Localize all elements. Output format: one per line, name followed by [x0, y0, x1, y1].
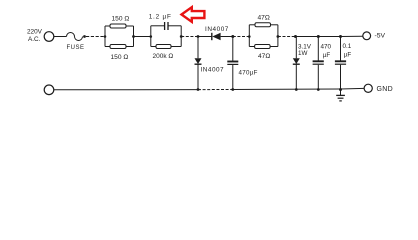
- capacitor 470uF wire bottom: [232, 65, 234, 90]
- wire 150ohm block to RC block: [134, 36, 151, 38]
- wire top branch right: [126, 25, 134, 27]
- resistor 150 ohm (top): [110, 24, 126, 28]
- svg-text:FUSE: FUSE: [67, 45, 85, 51]
- capacitor 0.1uF wire top: [340, 37, 342, 61]
- junction dot bottom: [339, 88, 342, 91]
- svg-text:GND: GND: [377, 86, 393, 93]
- svg-text:47Ω: 47Ω: [258, 14, 270, 21]
- wire cap branch right: [168, 25, 181, 27]
- wire top branch left: [105, 25, 110, 27]
- capacitor 0.1uF plates: [335, 60, 346, 62]
- wire shunt diode to bottom rail: [197, 64, 199, 89]
- svg-text:1W: 1W: [298, 50, 308, 57]
- zener diode symbol (pointing down): [293, 58, 300, 64]
- svg-text:47Ω: 47Ω: [258, 53, 270, 60]
- svg-text:1.2 µF: 1.2 µF: [149, 14, 172, 21]
- junction dot bottom of 470uF: [231, 88, 234, 91]
- wire to 0.1uF node: [318, 36, 340, 38]
- node: left vertical of 47ohm parallel block: [248, 25, 250, 47]
- svg-text:µF: µF: [344, 51, 352, 58]
- capacitor 470uF (first) wire top: [232, 37, 234, 61]
- resistor 150 ohm (bottom): [110, 45, 126, 49]
- junction dot after fuse: [83, 35, 86, 38]
- wire terminal to fuse: [54, 36, 67, 38]
- wire fuse to 150ohm block: [86, 36, 105, 38]
- junction dot bottom of shunt diode: [197, 88, 200, 91]
- bottom rail wire left: [54, 89, 198, 91]
- bottom rail wire right: [233, 88, 341, 91]
- terminal 220V AC (top left): [44, 32, 54, 42]
- junction dot bottom: [317, 88, 320, 91]
- capacitor 1.2uF: [164, 22, 166, 30]
- junction dot bottom of zener: [295, 88, 298, 91]
- terminal GND: [364, 84, 372, 92]
- capacitor 470uF plates: [227, 61, 238, 63]
- node D junction dot: [317, 35, 320, 38]
- svg-text:-5V: -5V: [375, 32, 386, 39]
- terminal bottom left: [44, 85, 54, 95]
- wire bottom branch right: [270, 46, 278, 48]
- wire res branch left: [151, 46, 156, 48]
- node B junction dot: [231, 35, 234, 38]
- svg-text:220V: 220V: [27, 29, 43, 36]
- wire bottom branch right: [126, 46, 134, 48]
- svg-text:0.1: 0.1: [343, 43, 352, 50]
- fuse FUSE: [67, 33, 83, 41]
- wire bottom branch left: [105, 46, 110, 48]
- bottom rail to GND terminal: [341, 87, 365, 90]
- wire node A to diode: [198, 36, 212, 38]
- terminal -5V: [363, 32, 371, 40]
- wire 47ohm block to zener node: [278, 36, 296, 38]
- diode IN4007 shunt symbol (pointing down): [195, 58, 202, 64]
- svg-text:µF: µF: [323, 52, 331, 59]
- wire RC block to diode node: [181, 36, 198, 38]
- wire bottom branch left: [249, 46, 254, 48]
- wire top branch left: [249, 24, 255, 26]
- wire diode to cap node: [221, 36, 233, 38]
- capacitor 0.1uF wire bottom: [340, 65, 342, 90]
- node: right vertical of 47ohm block: [277, 25, 279, 47]
- svg-text:470: 470: [321, 44, 332, 51]
- capacitor 470uF (second) wire bottom: [317, 65, 319, 90]
- wire top branch right: [271, 24, 278, 26]
- wire to -5V terminal: [341, 35, 363, 37]
- node: right vertical of RC block: [180, 26, 182, 47]
- resistor 47 ohm (bottom): [255, 45, 271, 49]
- resistor 200k ohm: [156, 45, 171, 49]
- node: left vertical of RC parallel block: [150, 26, 152, 47]
- svg-text:A.C.: A.C.: [28, 36, 41, 43]
- resistor 47 ohm (top): [255, 23, 271, 27]
- svg-text:470µF: 470µF: [239, 69, 258, 76]
- svg-text:150 Ω: 150 Ω: [111, 54, 129, 61]
- node: left vertical of 150ohm parallel block: [104, 26, 106, 47]
- svg-text:IN4007: IN4007: [201, 66, 225, 73]
- wire cap node to 47ohm block: [233, 36, 250, 38]
- bottom rail wire middle: [198, 89, 233, 91]
- svg-text:200k Ω: 200k Ω: [153, 53, 174, 60]
- wire res branch right: [171, 46, 181, 48]
- svg-text:150 Ω: 150 Ω: [112, 16, 130, 23]
- node E junction dot: [339, 35, 342, 38]
- node C junction dot: [294, 35, 297, 38]
- wire zener node to 470uF node: [296, 36, 319, 38]
- node A junction dot: [197, 35, 200, 38]
- wire cap branch left: [151, 25, 165, 27]
- annotation red arrow: [182, 7, 205, 22]
- ground symbol: [340, 89, 342, 95]
- diode IN4007 (shunt, vertical) wire top: [197, 37, 199, 59]
- diode IN4007 (series, pointing left): [211, 33, 213, 40]
- zener diode 3.1V 1W wire top: [295, 37, 297, 59]
- zener wire bottom: [295, 64, 297, 89]
- svg-text:IN4007: IN4007: [205, 26, 229, 33]
- capacitor 470uF (second) wire top: [317, 37, 319, 61]
- node: right vertical of 150ohm block: [133, 26, 135, 47]
- capacitor 470uF (second) plates: [313, 60, 324, 62]
